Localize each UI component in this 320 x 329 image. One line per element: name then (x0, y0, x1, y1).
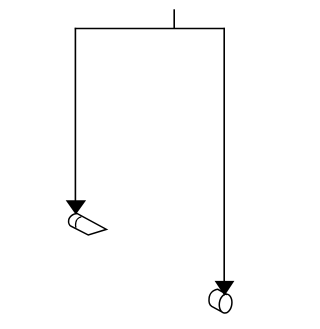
cylinder left end-cap inner arc (76, 217, 82, 228)
wire: left vertical drop (74, 28, 76, 201)
cylinder left body (69, 214, 107, 235)
cylinder right back silhouette and tangents (209, 289, 227, 312)
wire: right vertical drop (223, 28, 225, 282)
wire: top stub (173, 9, 175, 28)
arrowhead right (215, 281, 235, 296)
cylinder right front cap ellipse (218, 293, 233, 314)
wire: horizontal bus (75, 28, 225, 30)
arrowhead left (66, 200, 86, 214)
